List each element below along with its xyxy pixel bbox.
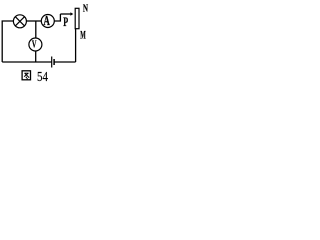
ammeter U-A circle: [41, 15, 54, 28]
svg-text:V: V: [32, 38, 37, 50]
wire: lamp to ammeter: [26, 20, 41, 22]
svg-text:P: P: [63, 14, 68, 29]
battery B1: long thin plate: [51, 57, 53, 68]
svg-text:A: A: [43, 13, 50, 28]
lamp L1 (circle with X): [13, 15, 26, 28]
wire: rheostat bottom down the right side: [75, 29, 77, 63]
wire: battery to bottom-right corner: [54, 61, 76, 63]
wire: voltmeter bottom down to bottom wire: [35, 51, 37, 62]
battery B1: short thick plate: [53, 59, 55, 65]
rheostat body (vertical rectangle): [75, 8, 79, 28]
wire: left side (top-left corner down to bottom-left corner): [2, 21, 13, 62]
wire: ammeter right, then up to wiper level: [54, 14, 60, 21]
caption glyph 图 (drawn strokes): [22, 71, 30, 80]
svg-text:54: 54: [37, 70, 48, 85]
svg-text:M: M: [80, 30, 86, 42]
voltmeter U-V circle: [29, 38, 42, 51]
wiper arrow P into rheostat: [60, 12, 73, 15]
wire: junction down to voltmeter top: [35, 21, 37, 38]
svg-text:N: N: [83, 2, 88, 14]
wire: bottom-left segment to battery: [2, 61, 52, 63]
